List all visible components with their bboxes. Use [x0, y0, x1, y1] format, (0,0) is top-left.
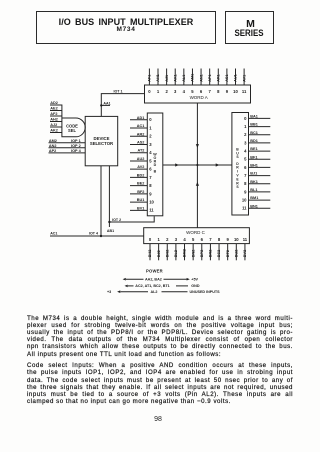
WORD C pin 2 input BK2 [165, 237, 169, 260]
bus driver pin 5 output wire BF1 [244, 155, 270, 161]
svg-text:4: 4 [149, 150, 152, 155]
svg-text:BB1: BB1 [250, 123, 258, 127]
svg-text:S: S [236, 155, 239, 159]
header series box [225, 11, 274, 44]
bus driver pin 10 output wire BM1 [242, 196, 270, 202]
svg-text:11: 11 [243, 237, 248, 242]
svg-text:BH1: BH1 [250, 164, 258, 168]
arrow WORD A data down [196, 144, 199, 148]
WORD C pin 9 input BT2 [226, 237, 230, 260]
svg-text:AA2, BA2: AA2, BA2 [145, 277, 162, 281]
WORD C pin 3 input BL2 [174, 237, 178, 260]
svg-text:AC2, AT1, BC2, BT1: AC2, AT1, BC2, BT1 [135, 284, 169, 288]
register WORD B [147, 113, 163, 216]
svg-text:BP2: BP2 [200, 250, 204, 257]
svg-text:BD1: BD1 [250, 139, 258, 143]
svg-text:BU1: BU1 [137, 198, 145, 202]
svg-text:IOP 2: IOP 2 [71, 144, 81, 148]
svg-text:SEL: SEL [68, 128, 76, 133]
gate CODE SEL [62, 105, 85, 137]
svg-text:9: 9 [149, 191, 152, 196]
svg-text:BJ1: BJ1 [250, 172, 257, 176]
svg-text:6: 6 [200, 89, 203, 94]
svg-text:8: 8 [244, 181, 247, 186]
svg-text:BS2: BS2 [217, 250, 221, 257]
label BUS DRIVERS vertical [236, 147, 239, 189]
bus driver pin 8 output wire BK1 [244, 180, 270, 186]
svg-text:AF1: AF1 [148, 75, 152, 82]
svg-text:BC1: BC1 [250, 131, 258, 135]
svg-text:3: 3 [175, 237, 178, 242]
power line unused inputs [121, 291, 188, 293]
svg-text:BV1: BV1 [137, 206, 144, 210]
register WORD C [144, 228, 250, 244]
svg-text:BJ2: BJ2 [157, 250, 161, 257]
svg-text:BD2: BD2 [137, 173, 145, 177]
svg-text:AD2: AD2 [50, 101, 58, 105]
register WORD A [145, 85, 251, 103]
descriptive paragraph 1 [27, 315, 293, 322]
svg-text:B: B [154, 170, 157, 174]
wire IOT 4 / AC1 net [50, 235, 144, 237]
svg-text:BL1: BL1 [250, 188, 257, 192]
svg-text:3: 3 [244, 140, 247, 145]
power section labels [107, 268, 220, 294]
svg-text:AH2: AH2 [50, 118, 58, 122]
svg-text:AH1: AH1 [156, 74, 160, 82]
WORD B pin 11 input wire BV1 [130, 206, 154, 212]
WORD B pin 2 input wire AR2 [130, 132, 152, 138]
bus driver pin 3 output wire BD1 [244, 139, 270, 145]
svg-text:0: 0 [149, 117, 152, 122]
power line +5V [126, 278, 187, 280]
svg-text:BH2: BH2 [148, 250, 152, 258]
header title box [36, 11, 216, 44]
wire AB1 vertical [100, 166, 102, 236]
page number [0, 416, 318, 423]
svg-text:WORD A: WORD A [190, 95, 208, 100]
arrow power unused left [117, 290, 120, 293]
bus driver pin 9 output wire BL1 [244, 188, 270, 194]
WORD A pin 6 input AN1 [199, 69, 203, 94]
svg-text:S: S [236, 185, 239, 189]
code select input wire AH2 [50, 118, 62, 122]
descriptive paragraph 2 [27, 362, 293, 369]
svg-text:BE2: BE2 [137, 182, 144, 186]
code select input wire AF2 [50, 112, 62, 116]
svg-text:9: 9 [244, 189, 247, 194]
arrow power +5V right [187, 278, 190, 281]
code select input wire AD2 [50, 101, 62, 105]
arrow power +5V left [123, 278, 126, 281]
svg-text:AT2: AT2 [137, 149, 144, 153]
bus driver pin 2 output wire BC1 [244, 131, 270, 137]
svg-text:AK2: AK2 [50, 129, 58, 133]
WORD B pin 9 input wire BF2 [130, 190, 152, 196]
svg-text:D: D [154, 163, 157, 167]
svg-text:BN2: BN2 [191, 250, 195, 258]
svg-text:BM1: BM1 [250, 196, 258, 200]
node bus center junction dot [196, 164, 198, 166]
WORD C pin 8 input BS2 [217, 237, 221, 260]
svg-text:10: 10 [233, 89, 238, 94]
WORD C pin 11 input BV2 [243, 237, 248, 260]
svg-text:AU2: AU2 [137, 157, 145, 161]
svg-text:+5V: +5V [191, 277, 198, 281]
svg-text:AN2: AN2 [49, 144, 57, 148]
svg-text:UNUSED INPUTS: UNUSED INPUTS [190, 290, 221, 294]
arrow bus data right [216, 163, 220, 166]
power line GND [128, 285, 188, 287]
svg-text:4: 4 [183, 237, 186, 242]
svg-text:6: 6 [149, 167, 152, 172]
WORD B pin 7 input wire BD2 [130, 173, 152, 179]
svg-text:5: 5 [191, 89, 194, 94]
svg-text:BE1: BE1 [250, 147, 257, 151]
WORD C pin 1 input BJ2 [157, 237, 161, 260]
WORD B pin 0 input wire AD1 [130, 116, 152, 122]
svg-text:POWER: POWER [146, 268, 163, 273]
label WORD B vertical [153, 152, 157, 173]
bus driver pin 1 output wire BB1 [244, 123, 270, 129]
svg-text:11: 11 [242, 89, 247, 94]
WORD C pin 7 input BR2 [209, 237, 213, 260]
svg-text:AV2: AV2 [137, 165, 144, 169]
svg-text:AJ2: AJ2 [50, 123, 57, 127]
svg-text:BU2: BU2 [235, 250, 239, 258]
bus drivers E1 [232, 113, 249, 216]
svg-text:AC1: AC1 [50, 232, 57, 236]
svg-text:AA1: AA1 [103, 101, 110, 105]
svg-text:8: 8 [217, 89, 220, 94]
WORD A pin 5 input AM1 [191, 69, 195, 94]
svg-text:8: 8 [218, 237, 221, 242]
WORD B pin 4 input wire AT2 [130, 149, 152, 155]
svg-text:5: 5 [149, 158, 152, 163]
svg-text:3: 3 [174, 89, 177, 94]
svg-text:BR2: BR2 [209, 250, 213, 258]
svg-text:BM2: BM2 [183, 249, 187, 257]
svg-text:6: 6 [244, 165, 247, 170]
device selector U1 [85, 116, 118, 165]
node IOT 2 junction dot [108, 221, 110, 223]
svg-text:BF1: BF1 [250, 155, 257, 159]
svg-text:1: 1 [157, 89, 160, 94]
svg-text:AJ1: AJ1 [165, 75, 169, 82]
svg-text:2: 2 [149, 134, 152, 139]
svg-text:IOP 1: IOP 1 [71, 139, 81, 143]
svg-text:7: 7 [149, 175, 152, 180]
pulse input wire AN2 IOP 2 [49, 144, 86, 148]
svg-text:7: 7 [208, 89, 211, 94]
WORD A pin 8 input AR1 [216, 69, 220, 94]
svg-text:9: 9 [226, 89, 229, 94]
code select input wire AK2 [50, 129, 62, 133]
svg-text:AM1: AM1 [191, 74, 195, 82]
wire gate output to device selector [84, 126, 86, 128]
svg-text:BF2: BF2 [137, 190, 144, 194]
WORD B pin 6 input wire AV2 [130, 165, 152, 171]
svg-text:AV1: AV1 [242, 75, 246, 82]
WORD C pin 0 input BH2 [148, 237, 152, 260]
wire bus WORD A to WORD C vertical [196, 103, 198, 228]
svg-text:AD1: AD1 [137, 116, 145, 120]
WORD A pin 11 input AV1 [242, 69, 247, 94]
svg-text:AS2: AS2 [137, 140, 144, 144]
svg-text:11: 11 [149, 208, 154, 213]
WORD C pin 10 input BU2 [234, 237, 239, 260]
svg-text:4: 4 [244, 148, 247, 153]
svg-text:AL1: AL1 [182, 75, 186, 82]
svg-text:BK2: BK2 [165, 250, 169, 258]
svg-text:10: 10 [234, 237, 239, 242]
WORD B pin 1 input wire AC1 [130, 124, 152, 130]
svg-text:AF2: AF2 [50, 112, 57, 116]
WORD B pin 8 input wire BE2 [130, 182, 152, 188]
svg-text:9: 9 [226, 237, 229, 242]
svg-text:AN1: AN1 [199, 74, 203, 82]
svg-text:3: 3 [149, 142, 152, 147]
wire IOT 1 net [101, 94, 144, 117]
wire bus WORD B to BUS DRIVERS horizontal [163, 164, 232, 166]
pulse input wire AM2 IOP 1 [49, 139, 86, 143]
svg-text:AR1: AR1 [216, 74, 220, 82]
WORD C pin 6 input BP2 [200, 237, 204, 260]
svg-text:6: 6 [201, 237, 204, 242]
svg-text:+3: +3 [107, 290, 111, 294]
svg-text:AL2: AL2 [151, 290, 158, 294]
WORD A pin 4 input AL1 [182, 69, 186, 94]
code select input wire AJ2 [50, 123, 62, 127]
svg-text:0: 0 [149, 237, 152, 242]
svg-text:BL2: BL2 [174, 250, 178, 257]
svg-text:SELECTOR: SELECTOR [90, 141, 114, 146]
svg-text:AC1: AC1 [137, 124, 145, 128]
arrow WORD B data right [175, 163, 179, 166]
svg-text:BT2: BT2 [226, 250, 230, 257]
svg-text:2: 2 [166, 237, 169, 242]
WORD A pin 1 input AH1 [156, 69, 160, 94]
svg-text:5: 5 [192, 237, 195, 242]
svg-text:10: 10 [242, 198, 247, 203]
bus driver pin 6 output wire BH1 [244, 164, 270, 170]
svg-text:4: 4 [183, 89, 186, 94]
wire AA1 stub [101, 104, 110, 106]
svg-text:AK1: AK1 [173, 74, 177, 82]
svg-text:11: 11 [242, 206, 247, 211]
svg-text:10: 10 [149, 200, 154, 205]
svg-text:AP2: AP2 [49, 149, 56, 153]
code select input wire AE2 [50, 107, 62, 111]
WORD A pin 7 input AP1 [208, 69, 212, 94]
svg-text:1: 1 [157, 237, 160, 242]
svg-text:BV2: BV2 [243, 250, 247, 257]
svg-text:BN1: BN1 [250, 204, 258, 208]
wire IOT 2 net [109, 166, 154, 227]
svg-text:1: 1 [244, 124, 247, 129]
WORD C pin 4 input BM2 [183, 237, 187, 260]
WORD B pin 10 input wire BU1 [130, 198, 155, 204]
svg-text:2: 2 [165, 89, 168, 94]
svg-text:2: 2 [244, 132, 247, 137]
WORD A pin 10 input AU1 [233, 69, 238, 94]
svg-text:AM2: AM2 [49, 139, 57, 143]
svg-text:BK1: BK1 [250, 180, 258, 184]
WORD A pin 9 input AS1 [225, 69, 229, 94]
svg-text:AR2: AR2 [137, 132, 145, 136]
svg-text:5: 5 [244, 157, 247, 162]
svg-text:1: 1 [149, 125, 152, 130]
pulse input wire AP2 IOP 4 [49, 149, 86, 153]
arrow WORD C data up [196, 182, 199, 186]
svg-text:AP1: AP1 [208, 74, 212, 81]
svg-text:0: 0 [244, 116, 247, 121]
arrow power GND left [125, 285, 128, 288]
svg-text:AS1: AS1 [225, 74, 229, 81]
svg-text:AU1: AU1 [234, 74, 238, 82]
bus driver pin 4 output wire BE1 [244, 147, 270, 153]
svg-text:AB1: AB1 [107, 229, 114, 233]
svg-text:7: 7 [209, 237, 212, 242]
svg-text:IOT 2: IOT 2 [112, 218, 121, 222]
WORD A pin 2 input AJ1 [165, 69, 169, 94]
node IOT 4 junction dot [100, 235, 102, 237]
svg-text:IOP 4: IOP 4 [71, 149, 82, 153]
bus driver pin 0 output wire BA1 [244, 115, 270, 121]
svg-text:8: 8 [149, 183, 152, 188]
svg-text:IOT 1: IOT 1 [114, 90, 123, 94]
WORD A pin 3 input AK1 [173, 69, 177, 94]
WORD B pin 3 input wire AS2 [130, 140, 152, 146]
WORD B pin 5 input wire AU2 [130, 157, 152, 163]
svg-text:IOT 4: IOT 4 [89, 232, 98, 236]
bus driver pin 7 output wire BJ1 [244, 172, 270, 178]
svg-text:BA1: BA1 [250, 115, 258, 119]
svg-text:0: 0 [148, 89, 151, 94]
bus driver pin 11 output wire BN1 [242, 204, 270, 210]
node AA1 junction dot [100, 104, 102, 106]
svg-text:WORD C: WORD C [186, 230, 205, 235]
WORD A pin 0 input AF1 [148, 69, 152, 94]
svg-text:7: 7 [244, 173, 247, 178]
svg-text:GND: GND [191, 284, 200, 288]
svg-text:AE2: AE2 [50, 107, 57, 111]
WORD C pin 5 input BN2 [191, 237, 195, 260]
